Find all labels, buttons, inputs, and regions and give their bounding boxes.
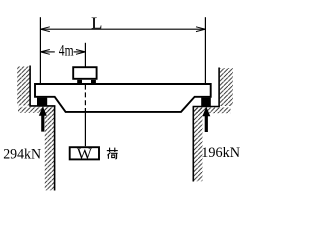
right wall lower hatching [194, 107, 203, 181]
dimension L right extension line [204, 17, 206, 83]
svg-text:294kN: 294kN [3, 146, 41, 162]
svg-text:W: W [77, 146, 93, 163]
dimension 4m left arrowhead [40, 50, 49, 55]
trolley body [73, 67, 96, 79]
load box W [70, 147, 99, 159]
left reaction arrow 294kN [39, 106, 47, 131]
dimension 4m line segments [40, 51, 54, 53]
right wall lower face line [192, 107, 194, 182]
trolley right wheel [91, 80, 96, 83]
dimension line L [40, 28, 205, 30]
dimension L left extension line [39, 17, 41, 83]
left wall upper face line [29, 66, 31, 106]
left wall corbel ledge hatching [18, 107, 54, 113]
dimension L right arrowhead [196, 27, 205, 32]
trolley extension / hanger top line [84, 43, 86, 67]
kanji 荷 (load) drawn as strokes [107, 148, 118, 159]
right corbel ledge top line [193, 106, 220, 108]
left bearing block [37, 98, 47, 106]
right wall upper face line [218, 68, 220, 107]
left wall upper hatching [17, 67, 30, 106]
trolley left wheel [77, 80, 82, 83]
left wall lower hatching [45, 107, 54, 191]
left wall lower face line [54, 106, 56, 191]
right wall corbel ledge hatching [194, 107, 231, 113]
svg-text:196kN: 196kN [201, 145, 240, 161]
right wall upper hatching [220, 68, 233, 106]
dimension 4m right arrowhead [76, 50, 85, 55]
hoist dashed line through beam [84, 85, 86, 112]
dimension L left arrowhead [40, 27, 49, 32]
right bearing block [201, 98, 211, 106]
left corbel ledge top line [29, 105, 55, 107]
girder beam outline [35, 84, 211, 112]
svg-text:L: L [91, 13, 103, 32]
hoist solid rope line [84, 112, 86, 147]
right reaction arrow 196kN [202, 107, 210, 132]
svg-text:4m: 4m [59, 43, 74, 60]
